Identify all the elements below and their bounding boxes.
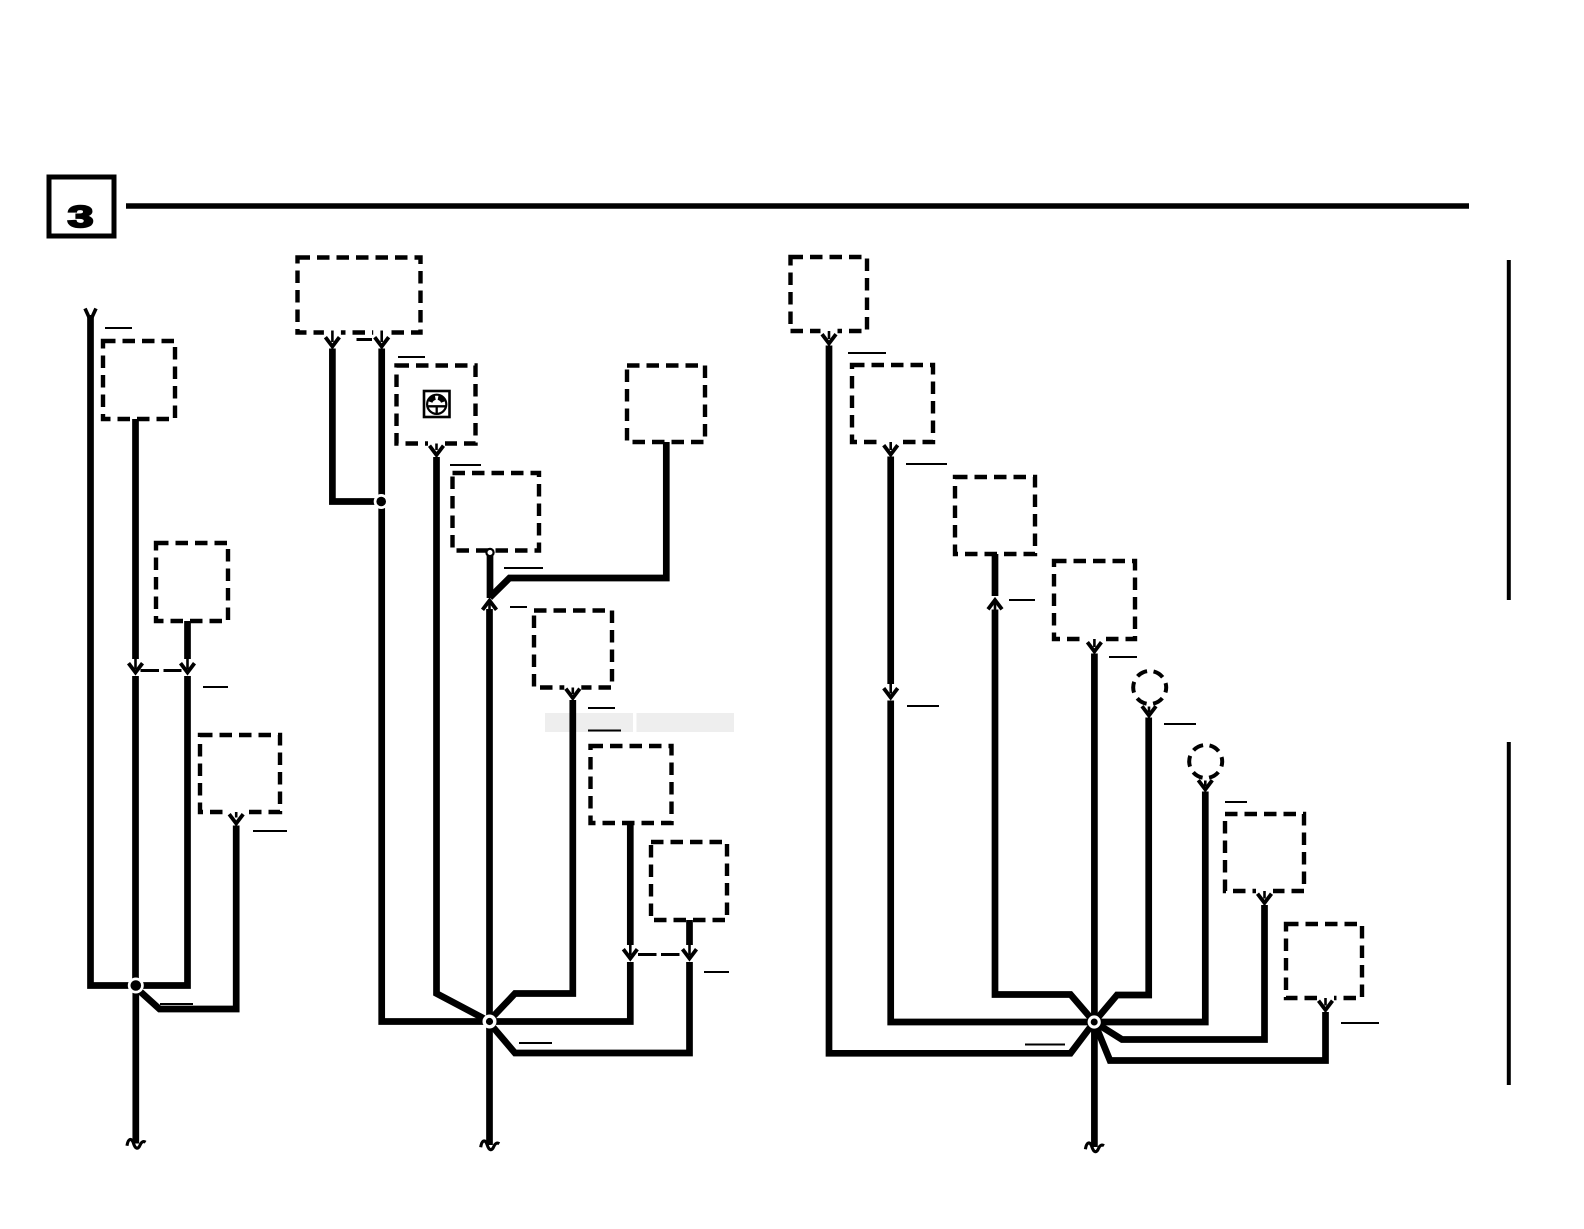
svg-text:3: 3 (68, 200, 94, 235)
